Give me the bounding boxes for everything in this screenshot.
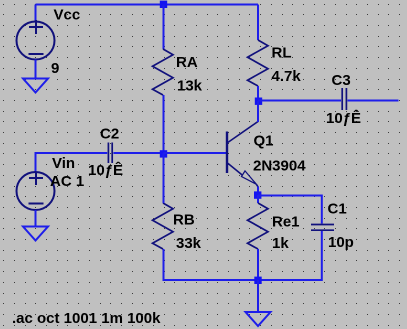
wire Vin top to C2 bbox=[36, 153, 108, 172]
wire emitter node to C1 bbox=[258, 196, 322, 224]
wire collector node to C3 bbox=[258, 100, 341, 102]
transistor Q1 bbox=[227, 122, 258, 187]
resistor RL bbox=[248, 40, 269, 86]
junction top of RA bbox=[160, 1, 167, 8]
wire Re1 bottom to ground rail bbox=[257, 249, 259, 280]
svg-text:Vin: Vin bbox=[52, 155, 75, 172]
svg-text:13k: 13k bbox=[177, 78, 203, 95]
wire Vcc to ground bbox=[35, 60, 37, 79]
svg-text:2N3904: 2N3904 bbox=[253, 158, 306, 175]
wire RA bottom to base junction bbox=[163, 95, 165, 153]
junction collector node bbox=[255, 98, 262, 105]
svg-text:1k: 1k bbox=[272, 235, 289, 252]
svg-text:.ac oct 1001 1m 100k: .ac oct 1001 1m 100k bbox=[12, 310, 161, 327]
junction base node bbox=[160, 150, 167, 157]
wire Q1 emitter to emitter junction bbox=[257, 187, 259, 196]
wire C2 to base junction bbox=[113, 152, 163, 154]
ground under Vin bbox=[23, 227, 48, 241]
svg-text:C3: C3 bbox=[332, 72, 351, 89]
svg-text:9: 9 bbox=[51, 60, 59, 77]
svg-text:C2: C2 bbox=[100, 126, 119, 143]
junction ground rail bbox=[254, 277, 261, 284]
voltage source Vin bbox=[17, 172, 55, 211]
svg-text:33k: 33k bbox=[176, 235, 202, 252]
svg-text:Q1: Q1 bbox=[254, 133, 274, 150]
capacitor C1 bbox=[311, 225, 334, 231]
svg-text:10ƒÊ: 10ƒÊ bbox=[88, 161, 123, 179]
wire ground rail left to RB bbox=[164, 249, 259, 280]
wire base junction to Q1 base bbox=[164, 152, 227, 154]
svg-text:10ƒÊ: 10ƒÊ bbox=[326, 109, 361, 127]
wire top rail from Vcc to RL bbox=[36, 4, 259, 6]
svg-text:RA: RA bbox=[176, 54, 198, 71]
svg-text:Vcc: Vcc bbox=[54, 7, 81, 24]
wire C1 bottom to ground rail bbox=[258, 231, 322, 280]
wire ground rail junction to ground bbox=[257, 280, 259, 312]
wire Vin to ground bbox=[35, 210, 37, 227]
wire RL bottom to collector junction bbox=[257, 86, 259, 101]
capacitor C2 bbox=[108, 143, 112, 164]
ground bottom bbox=[246, 312, 271, 326]
junction emitter node bbox=[254, 191, 261, 198]
capacitor C3 bbox=[342, 88, 346, 110]
wire Vcc source top stub bbox=[35, 5, 37, 22]
resistor Re1 bbox=[248, 203, 269, 249]
wire emitter node to Re1 bbox=[257, 195, 259, 203]
ground under Vcc bbox=[23, 79, 48, 93]
svg-text:RL: RL bbox=[272, 45, 292, 62]
wire RB top to base junction bbox=[163, 153, 165, 203]
svg-text:C1: C1 bbox=[328, 201, 347, 218]
svg-text:4.7k: 4.7k bbox=[272, 68, 302, 85]
svg-text:AC 1: AC 1 bbox=[50, 173, 84, 190]
resistor RA bbox=[153, 49, 174, 95]
wire top rail corner to RL bbox=[257, 5, 259, 41]
svg-text:Re1: Re1 bbox=[272, 214, 300, 231]
wire C3 output bbox=[348, 100, 399, 102]
svg-text:RB: RB bbox=[173, 212, 195, 229]
wire top rail to RA bbox=[163, 5, 165, 50]
wire collector junction to Q1 bbox=[257, 101, 259, 122]
svg-text:10p: 10p bbox=[328, 234, 354, 251]
resistor RB bbox=[153, 203, 174, 249]
voltage source Vcc bbox=[17, 20, 55, 60]
